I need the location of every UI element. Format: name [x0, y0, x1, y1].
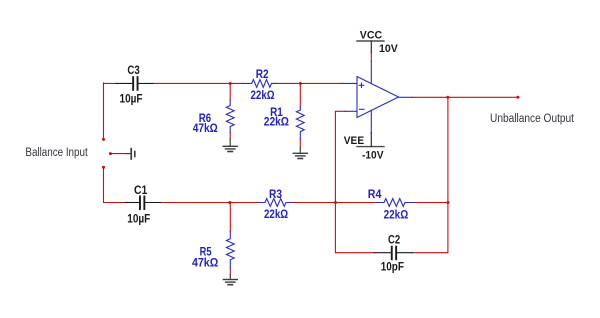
ground under R1	[293, 148, 307, 159]
resistor R1	[264, 105, 304, 139]
node input stub	[109, 152, 112, 155]
input terminal jack	[127, 148, 136, 160]
node feedback junction	[334, 201, 337, 204]
svg-text:22kΩ: 22kΩ	[384, 208, 409, 222]
op-amp U1	[342, 61, 412, 133]
wire top left horizontal (input to C3)	[104, 82, 117, 84]
svg-text:VEE: VEE	[344, 135, 364, 147]
resistor R6	[193, 100, 234, 135]
wire from C2 to right vertical bottom	[413, 252, 448, 254]
svg-text:R3: R3	[269, 187, 282, 201]
svg-text:R4: R4	[368, 187, 382, 201]
svg-text:C2: C2	[388, 232, 400, 246]
capacitor C1	[125, 183, 161, 225]
node R6 tap	[229, 82, 232, 85]
wire R6 bottom lead	[229, 133, 231, 139]
node R5 tap	[228, 201, 231, 204]
wire R1 bottom lead	[299, 139, 301, 148]
svg-text:10µF: 10µF	[120, 92, 143, 106]
svg-text:10V: 10V	[379, 43, 398, 55]
wire R6 top lead	[229, 83, 231, 100]
svg-text:22kΩ: 22kΩ	[251, 88, 275, 102]
wire feedback vertical	[335, 111, 374, 252]
wire from C1 to R3	[161, 202, 259, 204]
power VCC	[357, 30, 398, 55]
svg-text:R2: R2	[256, 67, 269, 81]
svg-text:-10V: -10V	[362, 150, 384, 162]
wire top from R2 to op-amp	[277, 82, 342, 84]
resistor R5	[192, 231, 234, 269]
node R1 tap	[299, 82, 302, 85]
wire input vertical upper	[103, 83, 105, 139]
node Unballance Output label	[490, 113, 575, 125]
wire R1 top lead	[299, 83, 301, 106]
power VEE	[344, 133, 384, 162]
wire from R4 to right vertical	[414, 202, 448, 204]
resistor R4	[368, 187, 414, 222]
svg-text:C3: C3	[127, 63, 140, 77]
capacitor C3	[116, 63, 153, 106]
svg-text:C1: C1	[134, 183, 148, 197]
svg-text:Unballance Output: Unballance Output	[490, 113, 575, 125]
wire input stub	[110, 153, 127, 155]
wire top from C3 to R2	[153, 82, 243, 84]
node R4 right junction	[446, 201, 449, 204]
resistor R3	[259, 187, 292, 221]
node input lower	[102, 166, 105, 169]
capacitor C2	[374, 232, 413, 273]
node output junction	[446, 96, 449, 99]
wire VCC pin red segment	[370, 53, 372, 61]
ground under R5	[223, 275, 237, 285]
wire R5 top lead	[229, 203, 231, 232]
wire from R3 to R4	[292, 202, 377, 204]
svg-text:10pF: 10pF	[381, 260, 404, 274]
wire right vertical	[447, 97, 449, 252]
svg-text:Ballance Input: Ballance Input	[25, 147, 88, 159]
node input upper	[102, 138, 105, 141]
wire output	[412, 96, 518, 98]
wire input vertical lower	[104, 167, 126, 202]
svg-text:47kΩ: 47kΩ	[193, 121, 218, 135]
svg-text:22kΩ: 22kΩ	[264, 114, 290, 128]
svg-text:VCC: VCC	[360, 30, 382, 42]
svg-text:47kΩ: 47kΩ	[192, 256, 219, 270]
node Ballance Input label	[25, 147, 88, 159]
ground under R6	[223, 139, 237, 152]
resistor R2	[242, 67, 276, 102]
svg-text:22kΩ: 22kΩ	[264, 207, 288, 221]
wire R5 bottom lead	[229, 269, 231, 275]
node output end	[516, 96, 519, 99]
svg-text:10µF: 10µF	[127, 211, 150, 225]
